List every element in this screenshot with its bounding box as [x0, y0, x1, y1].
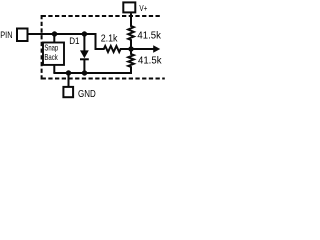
- svg-text:Snap: Snap: [44, 42, 58, 52]
- svg-text:Back: Back: [44, 52, 58, 62]
- svg-text:GND: GND: [78, 89, 96, 99]
- svg-text:V+: V+: [139, 3, 147, 13]
- svg-text:PIN: PIN: [0, 30, 12, 40]
- svg-text:2.1k: 2.1k: [101, 33, 119, 44]
- svg-text:41.5k: 41.5k: [137, 31, 161, 42]
- svg-text:41.5k: 41.5k: [138, 56, 162, 67]
- svg-text:D1: D1: [69, 36, 79, 47]
